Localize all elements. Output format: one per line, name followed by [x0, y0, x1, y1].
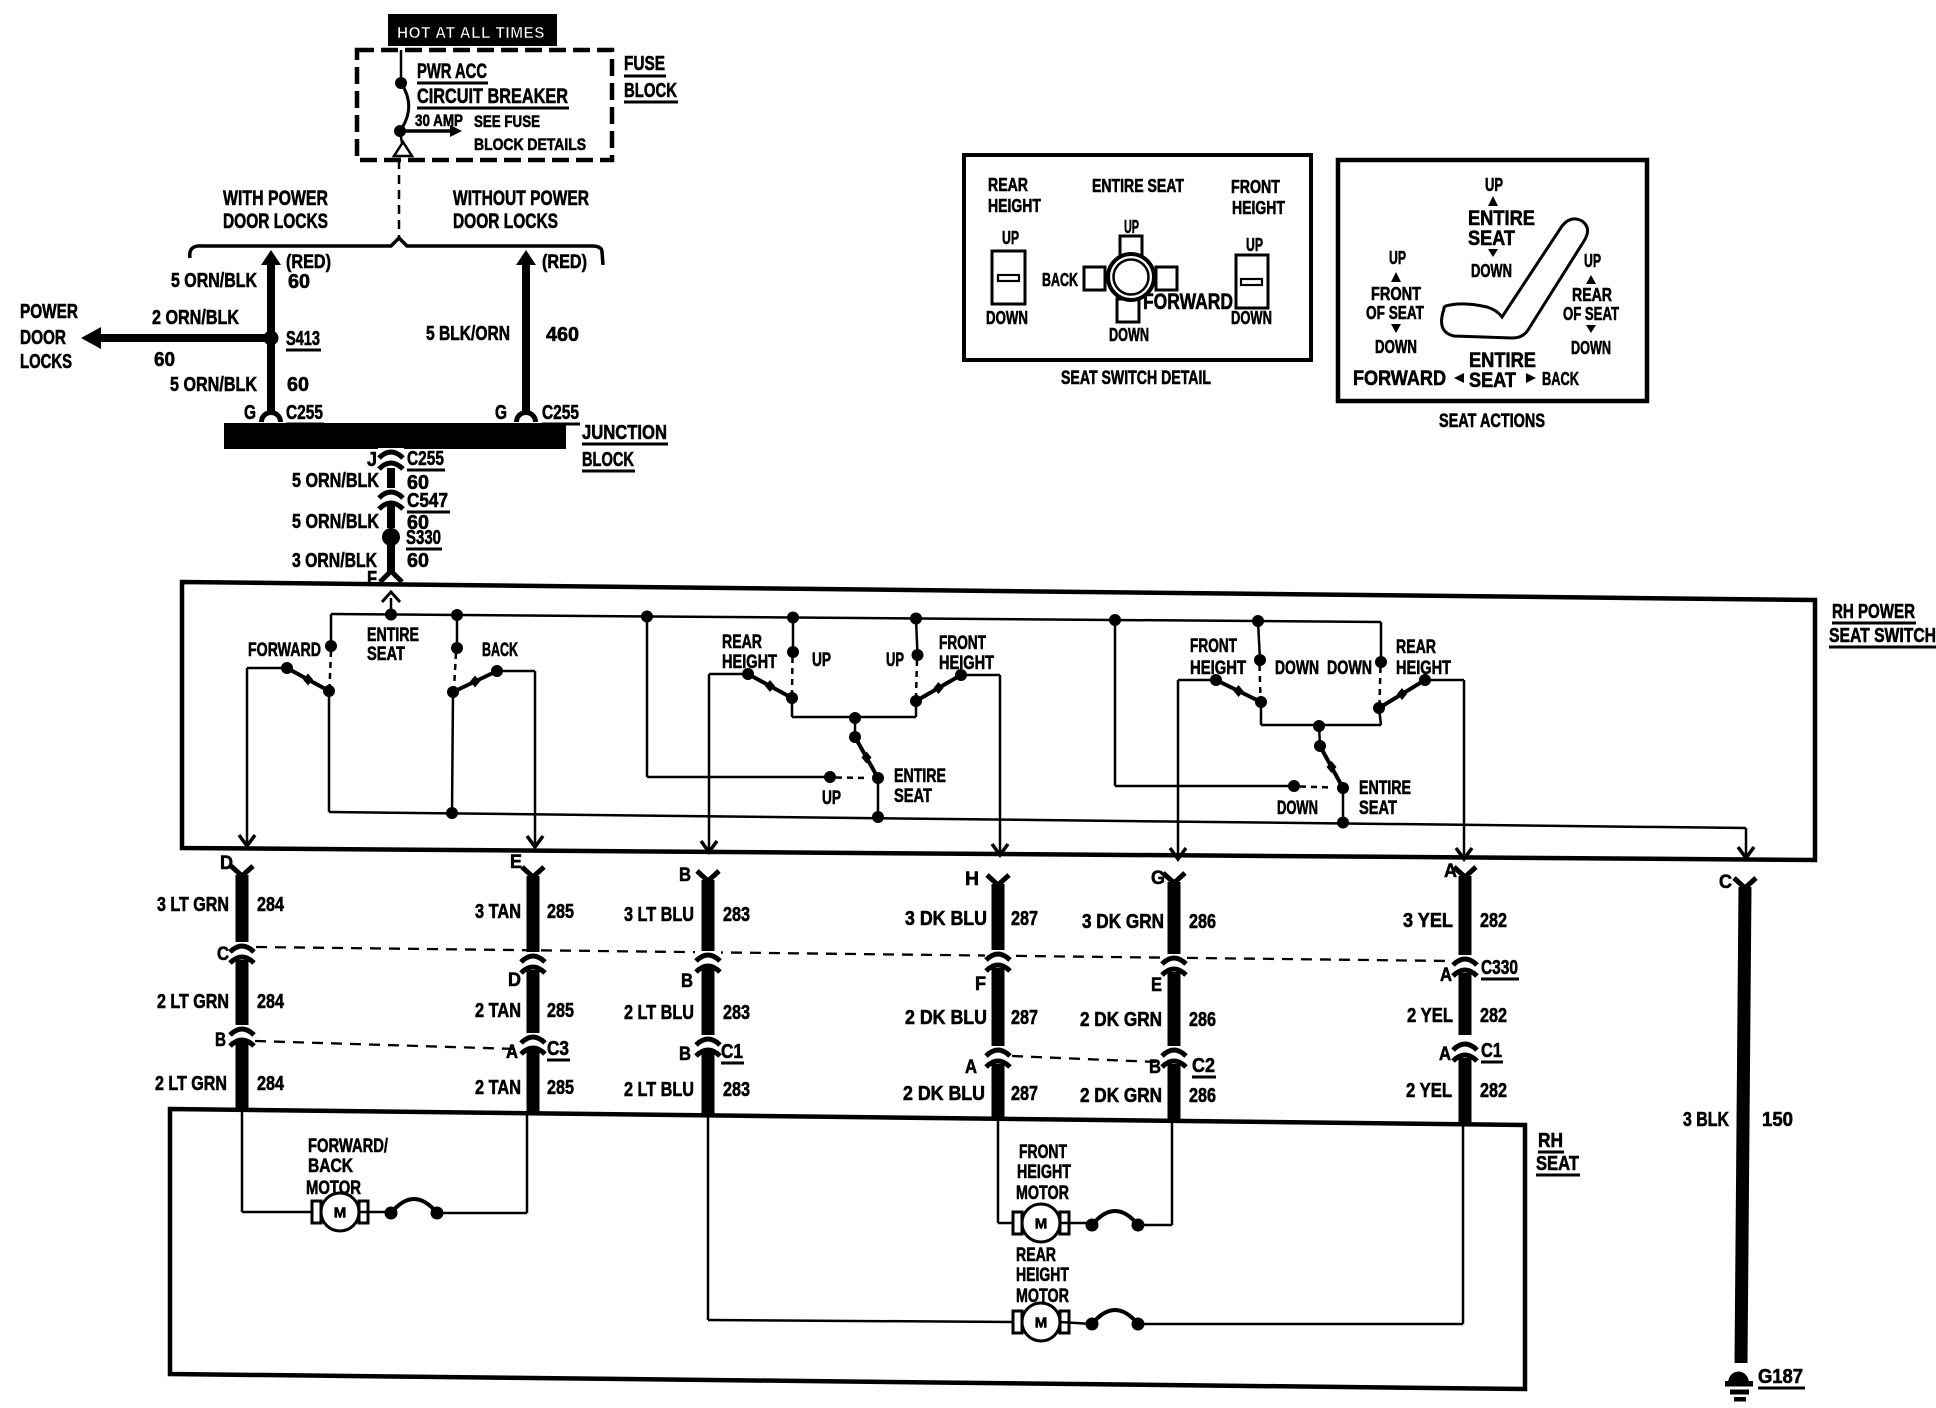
svg-text:M: M [1035, 1216, 1048, 1233]
svg-text:UP: UP [822, 788, 841, 809]
svg-text:(RED): (RED) [286, 252, 331, 273]
circuit breaker PWR ACC 30A [400, 50, 403, 78]
svg-text:FORWARD: FORWARD [1143, 289, 1233, 314]
svg-text:BACK: BACK [1542, 368, 1579, 389]
svg-text:UP: UP [1246, 234, 1263, 255]
svg-text:B: B [679, 865, 691, 886]
ground G187 [1728, 1372, 1749, 1384]
svg-text:REAR: REAR [988, 174, 1028, 195]
svg-text:286: 286 [1189, 1009, 1216, 1031]
svg-text:2 DK BLU: 2 DK BLU [905, 1007, 987, 1029]
svg-text:RH: RH [1538, 1130, 1563, 1152]
loop rear height motor [1086, 1310, 1145, 1331]
switch FORWARD arm [281, 662, 293, 674]
wire 2 ORN/BLK 60 to power door locks [81, 327, 101, 349]
output bus (bottom) [329, 812, 1746, 828]
svg-text:HEIGHT: HEIGHT [939, 653, 994, 674]
feed wire to ENTIRE SEAT UP contact [646, 617, 649, 778]
svg-text:DOWN: DOWN [1275, 658, 1319, 679]
wire to pin E [497, 670, 535, 673]
svg-text:HOT AT ALL TIMES: HOT AT ALL TIMES [397, 25, 545, 42]
svg-text:287: 287 [1011, 1083, 1038, 1105]
feed wire to ENTIRE SEAT DOWN contact [1114, 620, 1117, 786]
svg-text:G187: G187 [1758, 1366, 1803, 1388]
wire 5 BLK/ORN 460 (RED) right [516, 250, 536, 265]
svg-text:MOTOR: MOTOR [1016, 1286, 1069, 1307]
svg-text:5 BLK/ORN: 5 BLK/ORN [426, 323, 510, 345]
svg-text:2 LT GRN: 2 LT GRN [157, 991, 229, 1013]
link bar between height switch arms (down group) [1261, 724, 1381, 727]
svg-text:5 ORN/BLK: 5 ORN/BLK [292, 470, 379, 492]
svg-text:(RED): (RED) [542, 252, 587, 273]
svg-text:282: 282 [1480, 1080, 1507, 1102]
svg-text:FORWARD: FORWARD [248, 640, 321, 661]
connector C547 [378, 488, 404, 509]
top feed bus [331, 614, 1381, 622]
svg-text:DOWN: DOWN [1231, 307, 1272, 328]
wire to pin A [1425, 679, 1464, 682]
wire: dashed drop from fuse block [398, 160, 401, 238]
svg-text:SEAT: SEAT [894, 786, 932, 807]
svg-text:DOWN: DOWN [1109, 324, 1149, 345]
svg-text:A: A [1439, 1044, 1451, 1065]
switch FORWARD contact [330, 614, 333, 646]
connector C2 pin B [1161, 1046, 1187, 1067]
svg-text:ENTIRE: ENTIRE [1359, 778, 1411, 799]
svg-text:D: D [220, 853, 233, 874]
svg-text:C330: C330 [1481, 957, 1518, 979]
svg-text:2 ORN/BLK: 2 ORN/BLK [152, 307, 239, 329]
wire 3 ORN/BLK 60 pin F [387, 544, 395, 574]
switch FRONT HEIGHT UP arm [910, 695, 922, 707]
svg-text:ENTIRE: ENTIRE [894, 766, 946, 787]
svg-text:2 TAN: 2 TAN [475, 1000, 521, 1022]
svg-text:G: G [1151, 868, 1165, 889]
svg-text:283: 283 [723, 1002, 750, 1024]
svg-text:C255: C255 [286, 402, 323, 424]
wire to pin G [1178, 679, 1216, 682]
switch FRONT HEIGHT UP: feed [916, 619, 918, 656]
switch FRONT HEIGHT DOWN: feed [1258, 621, 1260, 660]
svg-text:SEAT SWITCH DETAIL: SEAT SWITCH DETAIL [1061, 368, 1211, 389]
svg-text:REAR: REAR [1572, 284, 1612, 305]
svg-text:3 DK BLU: 3 DK BLU [905, 908, 987, 930]
svg-text:3 YEL: 3 YEL [1403, 910, 1453, 932]
svg-text:3 LT GRN: 3 LT GRN [157, 894, 229, 916]
svg-text:E: E [510, 852, 522, 873]
connector pin F [985, 950, 1011, 971]
RH SEAT box [170, 1109, 1525, 1389]
svg-text:5 ORN/BLK: 5 ORN/BLK [292, 511, 379, 533]
svg-text:60: 60 [287, 374, 309, 396]
switch ENTIRE SEAT UP arm [872, 772, 884, 784]
connector pin C [229, 942, 255, 963]
svg-text:150: 150 [1762, 1109, 1793, 1131]
connector pin D [520, 952, 546, 973]
node F feed [385, 609, 397, 621]
RH power seat switch box [182, 582, 1815, 860]
svg-text:B: B [681, 971, 693, 992]
svg-text:30 AMP: 30 AMP [415, 111, 463, 130]
svg-text:C1: C1 [1481, 1040, 1502, 1062]
svg-text:C: C [1719, 872, 1732, 893]
svg-text:FRONT: FRONT [1371, 283, 1422, 304]
connector C255 pin J below junction block [387, 449, 395, 514]
motor M forward/back [312, 1193, 368, 1231]
svg-text:FRONT: FRONT [1019, 1142, 1067, 1163]
svg-text:F: F [975, 974, 986, 995]
svg-text:2 DK BLU: 2 DK BLU [903, 1083, 985, 1105]
svg-text:DOWN: DOWN [1375, 336, 1417, 357]
front height motor circuit [997, 1119, 1000, 1223]
svg-text:ENTIRE: ENTIRE [367, 625, 419, 646]
connector C1 pin B [695, 1035, 721, 1056]
svg-text:OF SEAT: OF SEAT [1563, 303, 1619, 324]
svg-text:C: C [217, 944, 229, 965]
svg-text:284: 284 [257, 1073, 285, 1095]
svg-text:A: A [965, 1057, 977, 1078]
svg-text:BACK: BACK [308, 1156, 353, 1177]
switch REAR HEIGHT DOWN: feed [1380, 622, 1383, 662]
svg-text:282: 282 [1480, 1005, 1507, 1027]
switch BACK arm [447, 686, 459, 698]
svg-text:2 LT BLU: 2 LT BLU [624, 1002, 694, 1024]
svg-text:D: D [508, 970, 521, 991]
connector C1 pin A [1452, 1040, 1478, 1061]
dashed connector line C330 row [256, 947, 1452, 961]
svg-text:SEE FUSE: SEE FUSE [474, 112, 540, 131]
svg-text:3 BLK: 3 BLK [1683, 1109, 1729, 1131]
seat profile icon [1442, 219, 1588, 338]
svg-text:G: G [495, 402, 507, 424]
svg-text:SEAT: SEAT [1469, 369, 1516, 392]
svg-text:FUSE: FUSE [624, 53, 665, 75]
svg-text:286: 286 [1189, 911, 1216, 933]
svg-text:SEAT ACTIONS: SEAT ACTIONS [1439, 411, 1545, 432]
svg-text:60: 60 [288, 271, 310, 293]
svg-text:UP: UP [812, 650, 831, 671]
svg-text:A: A [1440, 965, 1452, 986]
svg-text:285: 285 [547, 901, 574, 923]
svg-text:B: B [215, 1030, 226, 1051]
svg-text:SEAT: SEAT [1536, 1153, 1579, 1175]
connector pin B [229, 1025, 255, 1046]
svg-text:HEIGHT: HEIGHT [988, 195, 1042, 216]
dashed connector line row 2 (B to C3) [255, 1041, 517, 1049]
switch BACK contact [456, 615, 459, 648]
svg-text:SEAT SWITCH: SEAT SWITCH [1829, 625, 1936, 647]
svg-text:SEAT: SEAT [1359, 798, 1397, 819]
svg-text:UP: UP [1584, 250, 1601, 271]
svg-text:DOOR LOCKS: DOOR LOCKS [223, 210, 328, 233]
svg-text:3 LT BLU: 3 LT BLU [624, 904, 694, 926]
svg-text:B: B [679, 1044, 691, 1065]
svg-text:UP: UP [1124, 216, 1139, 237]
svg-text:DOWN: DOWN [1571, 337, 1611, 358]
JUNCTION BLOCK bar [224, 423, 566, 449]
svg-text:460: 460 [546, 324, 579, 346]
splice S413 [264, 331, 279, 346]
connector C3 pin A [520, 1033, 546, 1054]
seat switch detail box [964, 155, 1311, 360]
HOT AT ALL TIMES banner [388, 14, 557, 46]
svg-text:UP: UP [1485, 174, 1503, 195]
svg-text:60: 60 [407, 550, 429, 572]
svg-text:2 LT GRN: 2 LT GRN [155, 1073, 227, 1095]
connector pin A [985, 1046, 1011, 1067]
svg-text:G: G [244, 402, 256, 424]
svg-text:C2: C2 [1192, 1055, 1215, 1077]
svg-text:SEAT: SEAT [1468, 227, 1515, 250]
svg-text:JUNCTION: JUNCTION [582, 422, 667, 444]
svg-text:HEIGHT: HEIGHT [1017, 1162, 1071, 1183]
svg-text:F: F [367, 568, 377, 590]
svg-text:284: 284 [257, 991, 285, 1013]
svg-text:BLOCK: BLOCK [624, 80, 677, 102]
svg-text:DOOR LOCKS: DOOR LOCKS [453, 210, 558, 233]
fuse block dashed box [357, 50, 612, 160]
dashed connector line row 2 (A to C2) [1012, 1056, 1156, 1062]
svg-text:M: M [1035, 1315, 1048, 1332]
svg-text:286: 286 [1189, 1085, 1216, 1107]
svg-text:ENTIRE SEAT: ENTIRE SEAT [1092, 175, 1185, 196]
svg-text:DOWN: DOWN [1277, 798, 1318, 819]
loop forward/back motor [385, 1199, 444, 1220]
link bar between height switch arms (up group) [792, 716, 916, 719]
wire 5 ORN/BLK 60 (RED) left [261, 250, 281, 265]
svg-text:OF SEAT: OF SEAT [1366, 302, 1425, 323]
svg-text:WITHOUT POWER: WITHOUT POWER [453, 187, 589, 210]
svg-text:2 LT BLU: 2 LT BLU [624, 1079, 694, 1101]
svg-text:H: H [965, 869, 979, 890]
svg-text:BLOCK: BLOCK [582, 449, 634, 471]
svg-text:C255: C255 [407, 448, 444, 470]
svg-text:S330: S330 [406, 527, 441, 549]
pin F entry into switch [382, 592, 400, 602]
svg-text:285: 285 [547, 1077, 574, 1099]
svg-text:SEAT: SEAT [367, 644, 405, 665]
svg-text:DOWN: DOWN [1471, 260, 1512, 281]
svg-text:UP: UP [1389, 247, 1406, 268]
svg-text:FORWARD/: FORWARD/ [308, 1136, 389, 1157]
svg-text:3 ORN/BLK: 3 ORN/BLK [292, 550, 377, 572]
svg-text:5 ORN/BLK: 5 ORN/BLK [170, 374, 257, 396]
svg-text:C3: C3 [547, 1038, 569, 1060]
wire to pin H [961, 674, 1000, 677]
svg-text:5 ORN/BLK: 5 ORN/BLK [171, 270, 257, 292]
connector pin B [695, 951, 721, 972]
switch REAR HEIGHT DOWN arm [1373, 702, 1385, 714]
svg-text:HEIGHT: HEIGHT [1016, 1265, 1069, 1286]
connector C330 pin A [1452, 955, 1478, 976]
svg-text:PWR ACC: PWR ACC [417, 60, 487, 83]
svg-text:UP: UP [1002, 227, 1019, 248]
wire to pin D [247, 667, 287, 670]
svg-text:J: J [367, 449, 377, 471]
svg-text:283: 283 [723, 904, 750, 926]
svg-text:A: A [506, 1042, 518, 1063]
svg-text:REAR: REAR [1396, 637, 1436, 658]
svg-text:3 TAN: 3 TAN [475, 901, 521, 923]
svg-text:DOOR: DOOR [20, 327, 66, 349]
wire BACK arm to output bus [452, 692, 453, 813]
seat actions box [1338, 160, 1647, 401]
connector pin E [1161, 954, 1187, 975]
svg-text:C255: C255 [542, 402, 579, 424]
svg-text:DOWN: DOWN [986, 307, 1028, 328]
svg-text:UP: UP [886, 650, 904, 671]
svg-text:287: 287 [1011, 1007, 1038, 1029]
svg-text:E: E [1151, 975, 1162, 996]
svg-text:282: 282 [1480, 910, 1507, 932]
switch ENTIRE SEAT DOWN arm [1337, 782, 1349, 794]
svg-text:WITH POWER: WITH POWER [223, 187, 328, 210]
svg-text:BLOCK DETAILS: BLOCK DETAILS [474, 135, 586, 154]
bracket wire split [190, 238, 603, 265]
svg-text:RH POWER: RH POWER [1832, 601, 1915, 623]
rear height motor circuit [707, 1115, 710, 1320]
svg-text:FRONT: FRONT [1190, 636, 1237, 657]
svg-text:287: 287 [1011, 908, 1038, 930]
svg-text:POWER: POWER [20, 301, 78, 323]
switch REAR HEIGHT UP: feed [792, 618, 795, 653]
svg-text:DOWN: DOWN [1327, 658, 1372, 679]
svg-text:S413: S413 [286, 328, 320, 350]
svg-text:MOTOR: MOTOR [1016, 1183, 1069, 1204]
svg-text:M: M [334, 1205, 347, 1222]
svg-text:285: 285 [547, 1000, 574, 1022]
motor M front height [1013, 1204, 1069, 1242]
svg-text:MOTOR: MOTOR [306, 1178, 361, 1199]
switch ENTIRE SEAT UP contact [824, 771, 836, 783]
svg-text:FRONT: FRONT [1231, 176, 1281, 197]
svg-text:283: 283 [723, 1079, 750, 1101]
wire bus to pin C [1745, 828, 1748, 855]
svg-text:REAR: REAR [1016, 1245, 1056, 1266]
svg-text:3 DK GRN: 3 DK GRN [1082, 911, 1164, 933]
svg-text:FRONT: FRONT [939, 633, 986, 654]
splice S330 [382, 528, 400, 546]
wire to pin B [709, 673, 748, 676]
svg-text:BACK: BACK [1042, 269, 1078, 290]
wire 5 ORN/BLK 60 below S413 [267, 338, 275, 411]
svg-text:REAR: REAR [722, 632, 762, 653]
svg-text:2 TAN: 2 TAN [475, 1077, 521, 1099]
svg-text:284: 284 [257, 894, 285, 916]
switch REAR HEIGHT UP arm [786, 692, 798, 704]
svg-text:2 DK GRN: 2 DK GRN [1080, 1085, 1162, 1107]
svg-text:B: B [1149, 1057, 1161, 1078]
svg-text:2 YEL: 2 YEL [1407, 1005, 1453, 1027]
motor M rear height [1013, 1303, 1069, 1341]
svg-text:C1: C1 [721, 1041, 743, 1063]
svg-text:BACK: BACK [482, 640, 518, 661]
forward/back motor circuit [241, 1110, 244, 1212]
svg-text:2 YEL: 2 YEL [1406, 1080, 1452, 1102]
svg-text:2 DK GRN: 2 DK GRN [1080, 1009, 1162, 1031]
svg-text:CIRCUIT BREAKER: CIRCUIT BREAKER [417, 85, 568, 108]
svg-text:LOCKS: LOCKS [20, 351, 72, 373]
svg-text:FORWARD: FORWARD [1353, 367, 1446, 390]
svg-text:C547: C547 [407, 490, 448, 512]
svg-text:60: 60 [154, 349, 175, 371]
svg-text:HEIGHT: HEIGHT [1232, 197, 1286, 218]
switch FRONT HEIGHT DOWN arm [1255, 696, 1267, 708]
switch ENTIRE SEAT DOWN contact [1288, 780, 1300, 792]
loop front height motor [1086, 1211, 1145, 1232]
